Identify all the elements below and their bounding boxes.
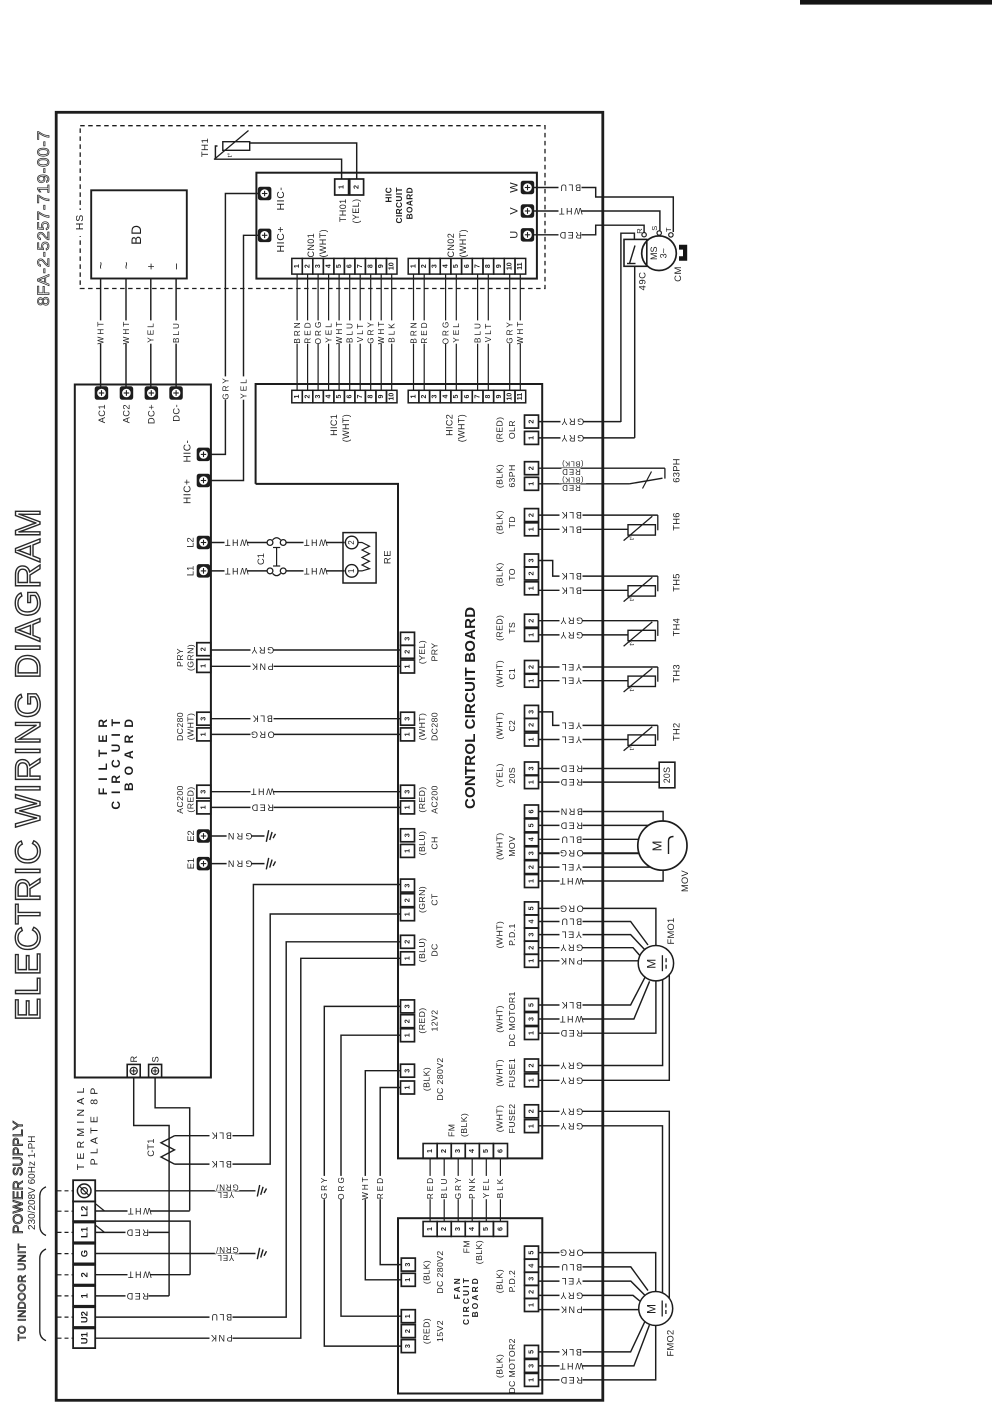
- thermistor TH5: [628, 586, 655, 596]
- svg-text:5: 5: [526, 1003, 535, 1007]
- svg-text:M: M: [644, 1304, 658, 1314]
- terminal HIC+ on HIC board: [258, 229, 271, 242]
- relay contacts C1: [210, 542, 267, 544]
- svg-text:(WHT): (WHT): [495, 1059, 505, 1087]
- svg-text:3: 3: [403, 1344, 412, 1348]
- svg-text:L2: L2: [79, 1206, 90, 1217]
- svg-text:2: 2: [526, 420, 535, 424]
- svg-text:4: 4: [526, 1264, 535, 1268]
- svg-text:BOARD: BOARD: [404, 187, 414, 219]
- svg-text:BLK: BLK: [560, 571, 582, 581]
- svg-text:9: 9: [496, 395, 503, 399]
- svg-text:C1: C1: [507, 668, 517, 680]
- connector 63PH pins 2 1: [525, 462, 539, 475]
- svg-text:8: 8: [485, 264, 492, 268]
- page header black bar: [800, 0, 992, 5]
- svg-text:R: R: [635, 228, 644, 234]
- svg-text:(RED): (RED): [417, 1007, 427, 1033]
- svg-text:(BLU): (BLU): [417, 831, 427, 856]
- wire FUSE1 GRY: [539, 980, 663, 1066]
- wire PRY GRY: [211, 649, 401, 651]
- svg-text:U2: U2: [79, 1311, 90, 1323]
- svg-text:1: 1: [294, 264, 301, 268]
- svg-text:GRY: GRY: [559, 616, 583, 626]
- svg-text:WHT: WHT: [126, 1206, 151, 1216]
- wire PRY PNK: [211, 665, 401, 667]
- svg-text:ORG: ORG: [558, 1248, 583, 1258]
- svg-text:BRN: BRN: [409, 320, 418, 343]
- svg-text:(WHT): (WHT): [495, 1005, 505, 1033]
- svg-text:5: 5: [526, 1251, 535, 1255]
- svg-text:(WHT): (WHT): [186, 713, 196, 741]
- filter circuit board box: [75, 385, 211, 1078]
- svg-text:BLK: BLK: [560, 1347, 582, 1357]
- svg-text:HIC+: HIC+: [275, 226, 287, 253]
- svg-text:CM: CM: [673, 266, 684, 282]
- thermistor TH4: [628, 630, 655, 640]
- label WHT: [97, 320, 105, 343]
- svg-text:FM: FM: [447, 1124, 457, 1137]
- wire S to L2 WHT: [155, 1078, 190, 1211]
- MS terminal R: [642, 233, 646, 237]
- wires CN01 to HIC1 with colour labels: [296, 274, 298, 390]
- connector DC MOTOR1 pins 5 3 1: [525, 999, 539, 1012]
- connector DC280 right pins 3 1: [401, 712, 415, 725]
- svg-text:2: 2: [526, 865, 535, 869]
- svg-text:TH6: TH6: [672, 512, 682, 530]
- wire C2 pin3 YEL: [539, 712, 658, 726]
- svg-text:BLU: BLU: [172, 321, 181, 343]
- terminal S filter: [149, 1064, 162, 1077]
- wire DC280 ORG: [211, 733, 401, 735]
- connector DC 280V2 fan pins 3 1: [401, 1258, 415, 1271]
- connector FM control pins 1-6: [423, 1144, 437, 1159]
- diode bridge BD box: [91, 190, 187, 278]
- wire CT pin1 BLK to CT1: [175, 914, 401, 1164]
- svg-text:2: 2: [526, 723, 535, 727]
- svg-text:3: 3: [402, 790, 411, 794]
- svg-text:1: 1: [402, 732, 411, 736]
- svg-text:PLATE 8P: PLATE 8P: [89, 1084, 101, 1166]
- svg-text:FUSE2: FUSE2: [507, 1103, 517, 1133]
- fan motor FMO1: [638, 946, 673, 981]
- svg-text:~: ~: [119, 261, 134, 269]
- svg-text:1: 1: [199, 664, 208, 668]
- svg-text:2: 2: [352, 185, 361, 189]
- svg-text:2: 2: [526, 1109, 535, 1113]
- svg-text:P.D.2: P.D.2: [507, 1270, 517, 1293]
- svg-text:20S: 20S: [662, 767, 672, 784]
- svg-text:PNK: PNK: [209, 1333, 232, 1343]
- svg-text:9: 9: [378, 264, 385, 268]
- svg-text:2: 2: [526, 466, 535, 470]
- svg-text:MOV: MOV: [680, 869, 690, 892]
- svg-text:WHT: WHT: [558, 876, 583, 886]
- svg-text:1: 1: [526, 1303, 535, 1307]
- svg-text:6: 6: [495, 1227, 504, 1231]
- svg-text:1: 1: [526, 527, 535, 531]
- svg-text:BD: BD: [129, 224, 144, 245]
- svg-text:RED: RED: [558, 230, 582, 240]
- svg-text:DC MOTOR2: DC MOTOR2: [507, 1338, 517, 1394]
- svg-text:WHT: WHT: [558, 1361, 583, 1371]
- wire DC280 BLK: [211, 718, 401, 720]
- svg-text:~: ~: [93, 261, 108, 269]
- svg-text:WHT: WHT: [223, 566, 248, 576]
- svg-text:BLU: BLU: [559, 183, 581, 193]
- svg-text:5: 5: [526, 1350, 535, 1354]
- svg-text:E1: E1: [186, 858, 196, 869]
- wire 20S pin1 RED: [539, 781, 660, 783]
- svg-text:63PH: 63PH: [672, 458, 682, 482]
- svg-text:GRY: GRY: [560, 417, 584, 427]
- connector DC MOTOR2 pins 5 3 1: [525, 1345, 539, 1358]
- svg-text:BLK: BLK: [210, 1159, 232, 1169]
- svg-text:HS: HS: [74, 214, 86, 231]
- svg-text:RED: RED: [250, 802, 274, 812]
- svg-text:10: 10: [389, 393, 396, 401]
- svg-text:2: 2: [526, 946, 535, 950]
- svg-text:(BLK): (BLK): [495, 1354, 505, 1378]
- svg-text:AC200: AC200: [175, 785, 185, 814]
- wire L2 WHT: [95, 1210, 190, 1212]
- svg-text:1: 1: [403, 1278, 412, 1282]
- svg-text:1: 1: [526, 679, 535, 683]
- svg-text:8: 8: [368, 395, 375, 399]
- svg-text:L1: L1: [79, 1226, 90, 1238]
- svg-text:(BLK): (BLK): [459, 1113, 469, 1137]
- svg-text:3: 3: [453, 1149, 462, 1153]
- svg-text:7: 7: [475, 264, 482, 268]
- svg-text:TS: TS: [507, 622, 517, 634]
- svg-text:3~: 3~: [659, 248, 669, 258]
- svg-text:3: 3: [199, 717, 208, 721]
- svg-text:1: 1: [526, 780, 535, 784]
- terminal V: [521, 205, 534, 218]
- svg-text:TO: TO: [507, 568, 517, 581]
- svg-text:1: 1: [526, 879, 535, 883]
- svg-text:4: 4: [326, 395, 333, 399]
- svg-text:2: 2: [304, 264, 311, 268]
- svg-text:2: 2: [402, 650, 411, 654]
- connector PRY left pins 2 1: [197, 643, 211, 656]
- svg-text:(GRN): (GRN): [186, 644, 196, 671]
- svg-text:(WHT): (WHT): [495, 660, 505, 688]
- svg-text:YEL: YEL: [217, 1190, 235, 1199]
- svg-text:2: 2: [403, 1329, 412, 1333]
- svg-text:7: 7: [475, 395, 482, 399]
- svg-text:CN01: CN01: [306, 233, 316, 258]
- svg-text:2: 2: [526, 665, 535, 669]
- svg-text:2: 2: [421, 264, 428, 268]
- svg-text:3: 3: [453, 1227, 462, 1231]
- svg-text:4: 4: [467, 1227, 476, 1231]
- svg-text:1: 1: [402, 1086, 411, 1090]
- svg-text:3: 3: [402, 717, 411, 721]
- svg-text:8: 8: [368, 264, 375, 268]
- wire MOV ORG: [539, 852, 640, 854]
- wire L2 to terminal 2: [95, 1221, 190, 1275]
- svg-text:GRY: GRY: [367, 320, 376, 344]
- svg-text:10: 10: [389, 262, 396, 270]
- svg-text:2: 2: [304, 395, 311, 399]
- connector FUSE1 pins 2 1: [525, 1059, 539, 1072]
- wire C2 pin1 YEL: [539, 739, 629, 741]
- svg-text:(WHT): (WHT): [341, 414, 351, 443]
- svg-text:(YEL): (YEL): [351, 199, 361, 224]
- svg-text:CIRCUIT: CIRCUIT: [394, 187, 404, 223]
- connector TS pins 2 1: [525, 614, 539, 627]
- wire U RED to MS terminal R: [534, 225, 644, 235]
- svg-text:2: 2: [421, 395, 428, 399]
- svg-text:3: 3: [315, 264, 322, 268]
- svg-text:YEL: YEL: [560, 662, 582, 672]
- solenoid valve 20S box: [659, 762, 675, 788]
- wire BD to DC-: [175, 279, 177, 388]
- svg-text:(WHT): (WHT): [318, 229, 328, 258]
- connector C2 pins 3 2 1: [525, 705, 539, 718]
- svg-text:1: 1: [526, 1031, 535, 1035]
- wire AC200 RED: [211, 806, 401, 808]
- svg-text:(WHT): (WHT): [417, 713, 427, 741]
- svg-text:(GRN): (GRN): [417, 886, 427, 913]
- wire terminal 1 RED: [95, 1295, 169, 1297]
- svg-text:6: 6: [526, 810, 535, 814]
- svg-text:3: 3: [199, 790, 208, 794]
- svg-text:R: R: [129, 1056, 139, 1063]
- svg-text:BLU: BLU: [346, 321, 355, 343]
- svg-text:AC1: AC1: [97, 404, 107, 423]
- svg-text:DC 280V2: DC 280V2: [435, 1250, 445, 1293]
- svg-text:(YEL): (YEL): [495, 763, 505, 787]
- connector CN02 pins 1-11: [408, 258, 419, 274]
- svg-text:PNK: PNK: [250, 661, 273, 671]
- svg-text:G: G: [79, 1250, 90, 1257]
- svg-text:YEL: YEL: [560, 676, 582, 686]
- svg-text:C2: C2: [507, 720, 517, 732]
- svg-text:S: S: [650, 226, 659, 231]
- svg-text:GRY: GRY: [560, 433, 584, 443]
- connector MOV pins 6-1: [525, 805, 539, 818]
- svg-text:(BLK): (BLK): [474, 1240, 484, 1264]
- svg-text:RED: RED: [559, 820, 583, 830]
- svg-text:TERMINAL: TERMINAL: [75, 1084, 87, 1171]
- connector P.D.1 pins 5-1: [525, 902, 539, 915]
- svg-text:10: 10: [507, 393, 514, 401]
- wires contacts to relay RE: [286, 542, 344, 544]
- svg-text:BLK: BLK: [210, 1131, 232, 1141]
- svg-text:CN02: CN02: [446, 233, 456, 258]
- wire P.D.2 YEL: [539, 1281, 647, 1296]
- svg-text:1: 1: [402, 665, 411, 669]
- wire MOV BRN: [539, 812, 664, 822]
- svg-text:7: 7: [357, 264, 364, 268]
- terminal E2: [197, 830, 210, 843]
- svg-text:BLU: BLU: [210, 1312, 232, 1322]
- svg-text:V: V: [508, 207, 520, 215]
- svg-text:TH5: TH5: [672, 573, 682, 591]
- svg-text:GRN/: GRN/: [215, 1245, 238, 1254]
- svg-text:PNK: PNK: [559, 1305, 582, 1315]
- svg-text:YEL: YEL: [452, 321, 461, 342]
- current transformer CT1: [161, 1136, 175, 1164]
- svg-text:WHT: WHT: [335, 320, 344, 345]
- svg-text:YEL: YEL: [560, 735, 582, 745]
- svg-text:2: 2: [526, 1290, 535, 1294]
- svg-text:1: 1: [294, 395, 301, 399]
- connector 12V2 pins 3 2 1: [401, 1000, 415, 1013]
- brace power supply: [40, 1187, 46, 1236]
- svg-text:WHT: WHT: [558, 1014, 583, 1024]
- svg-text:(WHT): (WHT): [458, 229, 468, 258]
- svg-text:TO INDOOR UNIT: TO INDOOR UNIT: [16, 1243, 28, 1341]
- svg-text:GRY: GRY: [559, 943, 583, 953]
- wire GRY HIC- to filter board: [211, 194, 259, 455]
- svg-text:P.D.1: P.D.1: [507, 923, 517, 946]
- svg-text:GRY: GRY: [559, 1290, 583, 1300]
- svg-text:1: 1: [425, 1149, 434, 1153]
- svg-text:3: 3: [402, 637, 411, 641]
- svg-text:HIC: HIC: [383, 187, 393, 203]
- connector FUSE2 pins 2 1: [525, 1105, 539, 1118]
- HS dashed box: [80, 126, 545, 289]
- svg-text:ORG: ORG: [249, 729, 274, 739]
- svg-text:3: 3: [526, 767, 535, 771]
- svg-text:(WHT): (WHT): [495, 712, 505, 740]
- svg-text:W: W: [508, 182, 520, 193]
- thermistor TH1: [223, 142, 250, 151]
- connector AC200 right pins 3 1: [401, 785, 415, 798]
- terminal plate 8P boxes: [73, 1180, 95, 1201]
- svg-text:YEL: YEL: [560, 1276, 582, 1286]
- svg-text:TH01: TH01: [338, 199, 348, 223]
- connector PRY right pins 3 2 1: [401, 632, 415, 645]
- connector 20S pins 3 1: [525, 762, 539, 775]
- svg-text:2: 2: [526, 1064, 535, 1068]
- svg-text:8FA-2-5257-719-00-7: 8FA-2-5257-719-00-7: [34, 130, 53, 306]
- svg-text:ORG: ORG: [558, 903, 583, 913]
- svg-text:BLU: BLU: [560, 917, 582, 927]
- svg-text:VLT: VLT: [484, 322, 493, 342]
- svg-text:1: 1: [526, 633, 535, 637]
- svg-text:RE: RE: [382, 550, 393, 564]
- svg-text:5: 5: [336, 264, 343, 268]
- svg-text:RED: RED: [303, 320, 312, 343]
- svg-text:WHT: WHT: [122, 320, 131, 345]
- wire TS pin2 GRY: [539, 620, 658, 622]
- svg-text:11: 11: [517, 393, 524, 401]
- terminal HIC- filter: [197, 448, 210, 461]
- svg-text:4: 4: [526, 920, 535, 924]
- svg-text:1: 1: [402, 805, 411, 809]
- svg-text:1: 1: [402, 956, 411, 960]
- svg-text:BOARD: BOARD: [122, 712, 136, 791]
- terminal U: [521, 229, 534, 242]
- svg-text:12V2: 12V2: [430, 1010, 440, 1032]
- svg-text:MS: MS: [649, 246, 659, 260]
- wire FUSE2 GRY 2 to FMO2: [539, 1126, 663, 1293]
- svg-text:6: 6: [464, 395, 471, 399]
- thermistor TH3: [628, 676, 655, 686]
- svg-text:U: U: [508, 231, 520, 239]
- svg-text:FUSE1: FUSE1: [507, 1058, 517, 1088]
- svg-text:M: M: [645, 959, 659, 969]
- svg-text:GRY: GRY: [221, 376, 230, 400]
- thermistor TH2: [628, 735, 655, 745]
- svg-text:(YEL): (YEL): [417, 640, 427, 664]
- svg-text:3: 3: [526, 710, 535, 714]
- wire C1 pin1 YEL: [539, 680, 629, 682]
- svg-text:M: M: [650, 841, 665, 852]
- connector C1 pins 2 1: [525, 661, 539, 674]
- svg-text:3: 3: [402, 1004, 411, 1008]
- svg-text:YEL: YEL: [239, 377, 248, 398]
- svg-text:3: 3: [402, 884, 411, 888]
- svg-text:RED: RED: [559, 1028, 583, 1038]
- svg-text:230/208V 60Hz 1-PH: 230/208V 60Hz 1-PH: [27, 1135, 38, 1230]
- wire DC280V2 pin1 RED to fan pin3: [380, 1088, 401, 1265]
- wire OLR pin2 GRY to 49C top: [621, 233, 635, 422]
- svg-text:YEL: YEL: [217, 1253, 235, 1262]
- svg-text:1: 1: [402, 1033, 411, 1037]
- svg-text:C1: C1: [256, 553, 266, 565]
- wire YEL HIC+ to filter board: [211, 235, 259, 480]
- label YEL: [147, 320, 155, 343]
- terminal HIC- on HIC board: [258, 187, 271, 200]
- svg-text:POWER SUPPLY: POWER SUPPLY: [9, 1120, 25, 1234]
- svg-text:CIRCUIT: CIRCUIT: [109, 712, 123, 810]
- wire FUSE2 GRY to FMO2: [539, 1111, 670, 1298]
- wire DC MOTOR1 RED: [539, 981, 656, 1033]
- svg-text:5: 5: [526, 823, 535, 827]
- wire DC MOTOR2 WHT: [539, 1325, 650, 1366]
- svg-text:GRY: GRY: [559, 1075, 583, 1085]
- svg-text:1: 1: [199, 805, 208, 809]
- svg-text:RED: RED: [559, 1375, 583, 1385]
- svg-text:WHT: WHT: [361, 1175, 370, 1200]
- svg-text:BLU: BLU: [560, 1262, 582, 1272]
- svg-text:GRN: GRN: [226, 831, 253, 841]
- svg-text:2: 2: [79, 1272, 90, 1277]
- svg-text:4: 4: [442, 264, 449, 268]
- svg-text:GRY: GRY: [559, 1121, 583, 1131]
- svg-text:FM: FM: [462, 1240, 472, 1253]
- wire MOV WHT: [539, 870, 664, 881]
- connector OLR pins 2 1: [525, 415, 539, 428]
- svg-text:GRY: GRY: [506, 320, 515, 344]
- terminal R filter: [127, 1064, 140, 1077]
- wire G GRN/YEL: [95, 1253, 255, 1255]
- svg-text:(RED): (RED): [186, 786, 196, 812]
- svg-text:DC MOTOR1: DC MOTOR1: [507, 991, 517, 1047]
- svg-text:YEL: YEL: [147, 321, 156, 342]
- brace to indoor unit: [40, 1249, 46, 1341]
- svg-text:(RED): (RED): [417, 786, 427, 812]
- svg-text:10: 10: [507, 262, 514, 270]
- wires CN02 to HIC2 with colour labels: [413, 274, 415, 390]
- wire DC MOTOR2 RED: [539, 1326, 656, 1380]
- svg-text:BLK: BLK: [496, 1177, 505, 1198]
- svg-text:3: 3: [526, 933, 535, 937]
- svg-text:1: 1: [402, 912, 411, 916]
- wire U2 BLU to DC pin2: [95, 942, 400, 1317]
- svg-text:(WHT): (WHT): [457, 414, 467, 443]
- svg-text:RED: RED: [559, 764, 583, 774]
- svg-text:GRY: GRY: [559, 1106, 583, 1116]
- terminal L2 filter: [197, 536, 210, 549]
- svg-text:TH1: TH1: [200, 138, 211, 157]
- svg-text:CONTROL CIRCUIT BOARD: CONTROL CIRCUIT BOARD: [462, 607, 479, 809]
